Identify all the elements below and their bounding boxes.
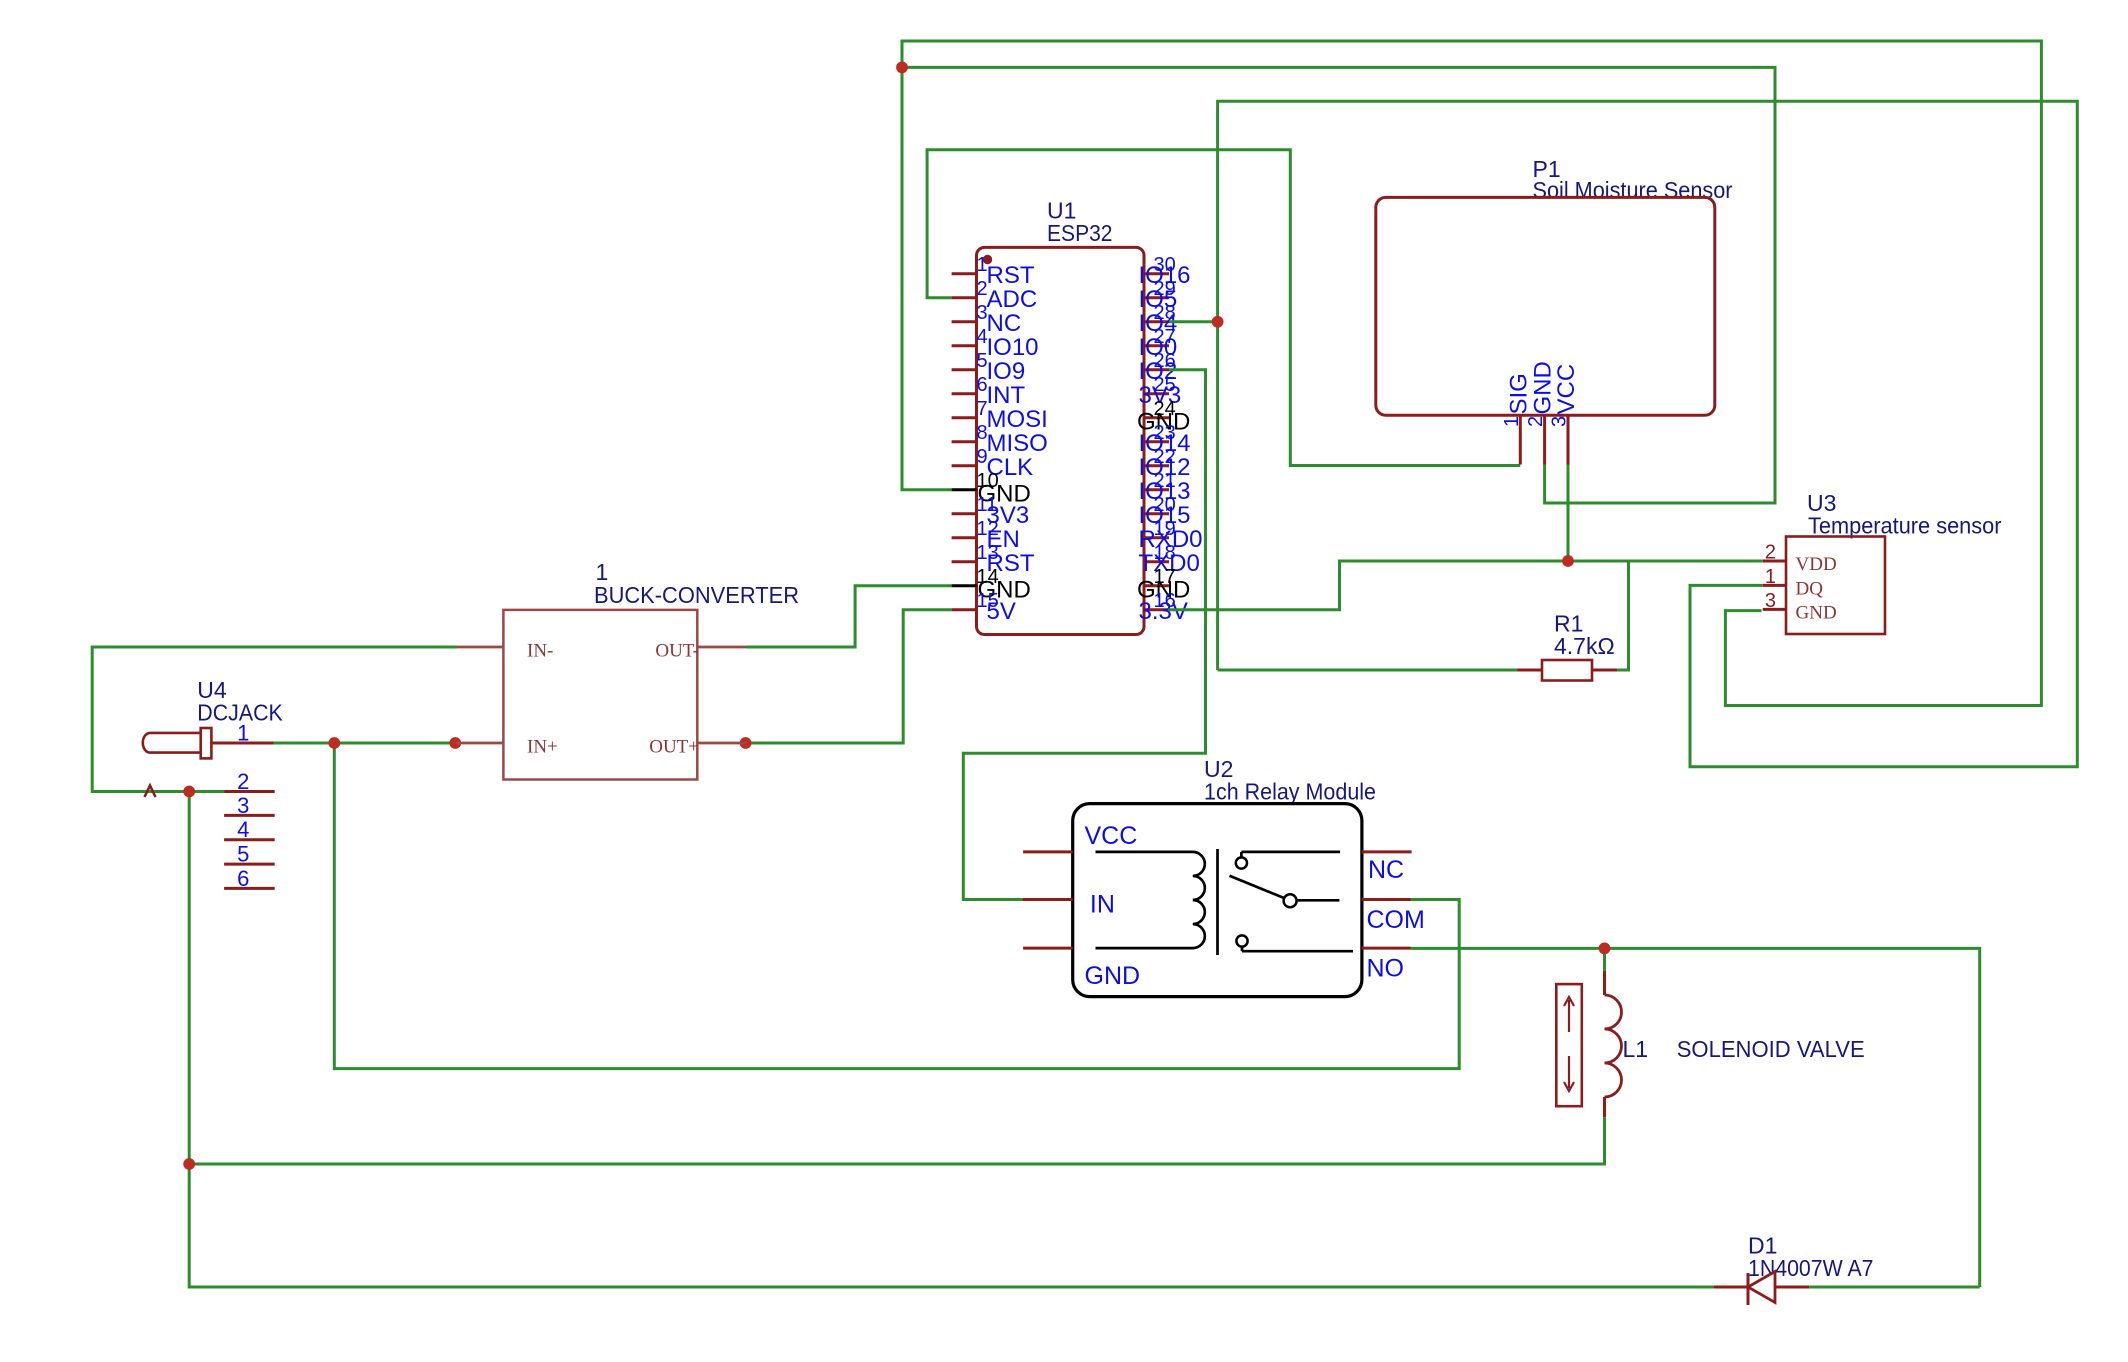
svg-text:ADC: ADC (987, 286, 1038, 313)
svg-text:VDD: VDD (1796, 554, 1837, 575)
svg-text:MISO: MISO (987, 430, 1048, 457)
svg-text:1ch Relay Module: 1ch Relay Module (1204, 779, 1376, 805)
svg-text:2: 2 (1765, 542, 1776, 564)
svg-text:SOLENOID VALVE: SOLENOID VALVE (1677, 1036, 1865, 1062)
svg-text:2: 2 (1525, 416, 1547, 427)
svg-text:OUT+: OUT+ (649, 737, 699, 758)
svg-text:4.7kΩ: 4.7kΩ (1554, 633, 1615, 659)
svg-text:3: 3 (1549, 416, 1571, 427)
svg-text:NO: NO (1367, 955, 1405, 983)
svg-text:OUT-: OUT- (655, 641, 699, 662)
svg-text:3: 3 (237, 793, 249, 818)
svg-text:IN+: IN+ (527, 737, 558, 758)
svg-text:6: 6 (237, 866, 249, 891)
svg-text:Temperature sensor: Temperature sensor (1808, 513, 2002, 539)
svg-text:VCC: VCC (1553, 364, 1580, 415)
svg-text:1: 1 (237, 721, 249, 746)
svg-text:1: 1 (1501, 416, 1523, 427)
svg-text:MOSI: MOSI (987, 406, 1048, 433)
svg-text:NC: NC (1368, 856, 1404, 884)
svg-text:Soil Moisture Sensor: Soil Moisture Sensor (1533, 177, 1733, 203)
svg-text:GND: GND (1085, 962, 1141, 990)
svg-text:IO9: IO9 (987, 358, 1026, 385)
svg-text:5: 5 (237, 842, 249, 867)
svg-text:DQ: DQ (1796, 578, 1824, 599)
svg-text:VCC: VCC (1085, 822, 1138, 850)
svg-text:1: 1 (1765, 566, 1776, 588)
svg-text:L1: L1 (1623, 1036, 1649, 1062)
svg-text:RST: RST (987, 262, 1035, 289)
svg-text:INT: INT (987, 382, 1026, 409)
svg-text:SIG: SIG (1505, 373, 1532, 414)
svg-text:ESP32: ESP32 (1047, 220, 1113, 246)
svg-text:GND: GND (1796, 602, 1837, 623)
svg-text:5V: 5V (987, 598, 1016, 625)
svg-text:4: 4 (237, 817, 249, 842)
svg-text:2: 2 (237, 769, 249, 794)
svg-text:3: 3 (1765, 590, 1776, 612)
svg-text:NC: NC (987, 310, 1022, 337)
svg-text:COM: COM (1367, 906, 1425, 934)
svg-text:BUCK-CONVERTER: BUCK-CONVERTER (594, 582, 799, 608)
svg-text:IN-: IN- (527, 641, 553, 662)
svg-text:IN: IN (1090, 891, 1115, 919)
svg-text:IO10: IO10 (987, 334, 1039, 361)
